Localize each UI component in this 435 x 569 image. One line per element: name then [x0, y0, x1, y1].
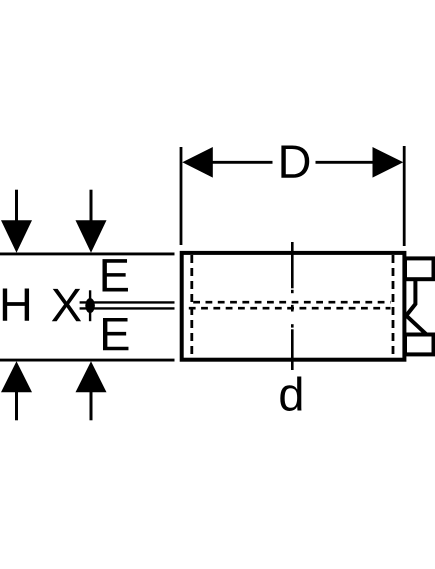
dimension X upper leader line	[80, 301, 175, 303]
dimension H up-arrow 2 head	[76, 361, 107, 392]
dimension H bottom line	[0, 359, 175, 362]
dimension H down-arrow 2 head	[76, 220, 107, 253]
dimension D line left segment	[211, 161, 273, 164]
label H	[3, 288, 29, 320]
label X	[52, 289, 81, 321]
dimension X marker dot	[85, 298, 95, 313]
label E lower	[103, 318, 128, 350]
coupling inner dashed line right	[392, 255, 395, 358]
dimension X lower leader line	[80, 307, 175, 309]
hidden edge dashed line upper	[193, 301, 390, 304]
centre line segment 2	[291, 290, 294, 293]
hidden edge dashed line lower	[189, 307, 391, 310]
dimension H down-arrow 2 shaft	[90, 190, 93, 224]
dimension D extension line right	[403, 146, 406, 246]
centre line segment 5	[291, 329, 294, 370]
dimension H top line	[0, 252, 175, 255]
clamp profile polyline	[406, 278, 426, 334]
dimension X marker stem	[89, 290, 91, 321]
dimension D arrowhead left	[182, 147, 213, 178]
dimension H up-arrow 1 shaft	[15, 390, 18, 420]
dimension H down-arrow 1 head	[1, 220, 32, 253]
dimension H up-arrow 1 head	[1, 361, 32, 392]
dimension D extension line left	[180, 147, 183, 245]
dimension H down-arrow 1 shaft	[15, 190, 18, 224]
coupling inner dashed line left	[190, 255, 193, 358]
centre line segment 1	[291, 242, 294, 288]
centre line segment 4	[291, 324, 294, 327]
clamp bottom tab	[405, 335, 434, 355]
label D	[281, 145, 309, 177]
dimension D arrowhead right	[373, 147, 404, 178]
centre line segment 3	[291, 305, 294, 312]
dimension D line right segment	[316, 161, 374, 164]
label E upper	[102, 259, 127, 291]
label d	[280, 376, 301, 411]
coupling body outline	[182, 253, 405, 360]
dimension H up-arrow 2 shaft	[90, 390, 93, 420]
clamp top tab	[405, 258, 434, 279]
